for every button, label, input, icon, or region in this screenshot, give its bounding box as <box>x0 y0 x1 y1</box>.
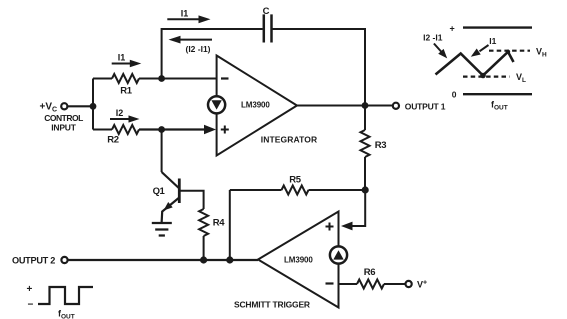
terminal OUTPUT 1 <box>393 103 399 109</box>
svg-text:OUTPUT 2: OUTPUT 2 <box>12 256 55 266</box>
current arrow I1 (top) <box>167 18 201 20</box>
node R4 junction on rail <box>200 256 207 263</box>
wire R3 to node C <box>364 157 366 190</box>
U2 current source (mirror) symbol <box>330 246 347 263</box>
svg-text:fOUT: fOUT <box>58 309 75 319</box>
U2 minus input marker <box>326 282 334 284</box>
waveform inset: VH dashed level <box>489 50 530 52</box>
svg-text:OUTPUT 1: OUTPUT 1 <box>405 101 446 111</box>
wire U1 output to OUTPUT 1 <box>297 105 393 107</box>
svg-text:fOUT: fOUT <box>491 100 508 112</box>
node output 1 junction <box>362 102 369 109</box>
transistor Q1 <box>162 172 179 188</box>
wire U2 minus input to R6 <box>339 283 358 285</box>
svg-text:−: − <box>28 300 34 311</box>
wire R5 to node C <box>309 189 366 191</box>
wire +Vc to input node <box>67 105 93 107</box>
resistor R4 <box>199 209 208 236</box>
terminal V+ <box>406 281 412 287</box>
current arrow (I2 - I1) pointing left <box>178 39 212 41</box>
wire output 2 rail <box>68 259 258 261</box>
node C (R3/R5 junction) <box>362 186 369 193</box>
op-amp U1 integrator <box>217 56 297 156</box>
svg-text:R3: R3 <box>375 140 387 151</box>
wire R4 bottom to output 2 rail <box>203 236 205 260</box>
node input junction <box>90 103 97 110</box>
svg-text:C: C <box>263 6 270 17</box>
svg-text:LM3900: LM3900 <box>284 256 313 265</box>
current arrow I2 over R2 <box>110 118 131 120</box>
svg-text:I2: I2 <box>116 108 124 118</box>
node R5 junction on rail <box>226 256 233 263</box>
svg-text:Q1: Q1 <box>153 186 166 197</box>
waveform inset: node dot at VH touch <box>506 50 510 54</box>
svg-text:R4: R4 <box>213 218 226 229</box>
svg-text:I1: I1 <box>118 53 126 63</box>
op-amp U2 schmitt trigger <box>258 212 339 308</box>
wire R1 branch left <box>93 78 112 80</box>
wire R5 left corner down to output 2 rail <box>229 190 231 260</box>
U2 plus input marker <box>326 223 334 231</box>
wire Q1 base to R4 <box>179 191 203 209</box>
resistor R3 <box>361 130 370 157</box>
svg-text:SCHMITT TRIGGER: SCHMITT TRIGGER <box>234 300 310 310</box>
capacitor C <box>264 14 272 42</box>
waveform inset: node dot at VL touch <box>480 73 486 79</box>
current arrow I1 over R1 <box>112 63 132 65</box>
svg-text:(I2 -I1): (I2 -I1) <box>185 44 210 54</box>
terminal +Vc <box>61 103 67 109</box>
svg-text:I1: I1 <box>181 9 189 19</box>
svg-text:R5: R5 <box>289 175 302 186</box>
resistor R6 <box>357 280 384 289</box>
svg-text:I2 -I1: I2 -I1 <box>423 33 443 43</box>
wire capacitor to node B (output column) <box>272 29 366 106</box>
resistor R1 <box>112 74 139 83</box>
svg-text:R6: R6 <box>364 267 376 278</box>
ground <box>152 223 172 236</box>
svg-text:R1: R1 <box>120 86 133 97</box>
svg-text:VL: VL <box>516 72 526 84</box>
node A (R1 / feedback junction) <box>158 75 165 82</box>
svg-text:V+: V+ <box>417 280 427 290</box>
waveform inset: triangle wave <box>436 52 514 76</box>
output 2 square waveform symbol <box>38 287 93 304</box>
svg-text:0: 0 <box>452 90 457 100</box>
wire R1 to inverting input <box>139 78 217 80</box>
svg-text:R2: R2 <box>107 135 119 146</box>
wire R6 to V+ terminal <box>384 283 406 285</box>
wire output node down to R3 <box>364 106 366 131</box>
wire top feedback from node A up and right to capacitor <box>162 29 263 79</box>
wire node C down into U2 plus input with arrow <box>350 190 365 226</box>
terminal OUTPUT 2 <box>61 257 67 263</box>
svg-text:I1: I1 <box>489 36 496 46</box>
resistor R5 <box>282 186 309 195</box>
wire R2 branch left <box>93 129 112 131</box>
waveform inset: top rail line <box>463 26 532 28</box>
wire input node vertical to R1/R2 branches <box>92 79 94 130</box>
wire R5 row left segment <box>230 189 282 191</box>
svg-text:INTEGRATOR: INTEGRATOR <box>261 135 317 145</box>
svg-text:INPUT: INPUT <box>51 123 77 133</box>
svg-text:CONTROL: CONTROL <box>44 113 83 123</box>
svg-text:LM3900: LM3900 <box>241 101 270 110</box>
svg-text:+: + <box>450 24 455 34</box>
waveform inset: VL dashed level <box>463 75 510 77</box>
svg-text:+VC: +VC <box>40 102 58 114</box>
waveform inset: zero rail line <box>463 93 532 95</box>
U1 plus input marker <box>221 126 229 134</box>
node B (R2 / Q1 junction) <box>158 126 165 133</box>
U1 minus input marker <box>221 77 229 79</box>
svg-text:VH: VH <box>536 47 547 59</box>
resistor R2 <box>112 125 139 134</box>
wire R2 to non-inverting input with arrow <box>139 128 207 130</box>
svg-text:+: + <box>27 284 33 295</box>
transistor Q1 collector wire <box>161 130 163 173</box>
U1 current source (mirror) symbol <box>208 96 225 113</box>
